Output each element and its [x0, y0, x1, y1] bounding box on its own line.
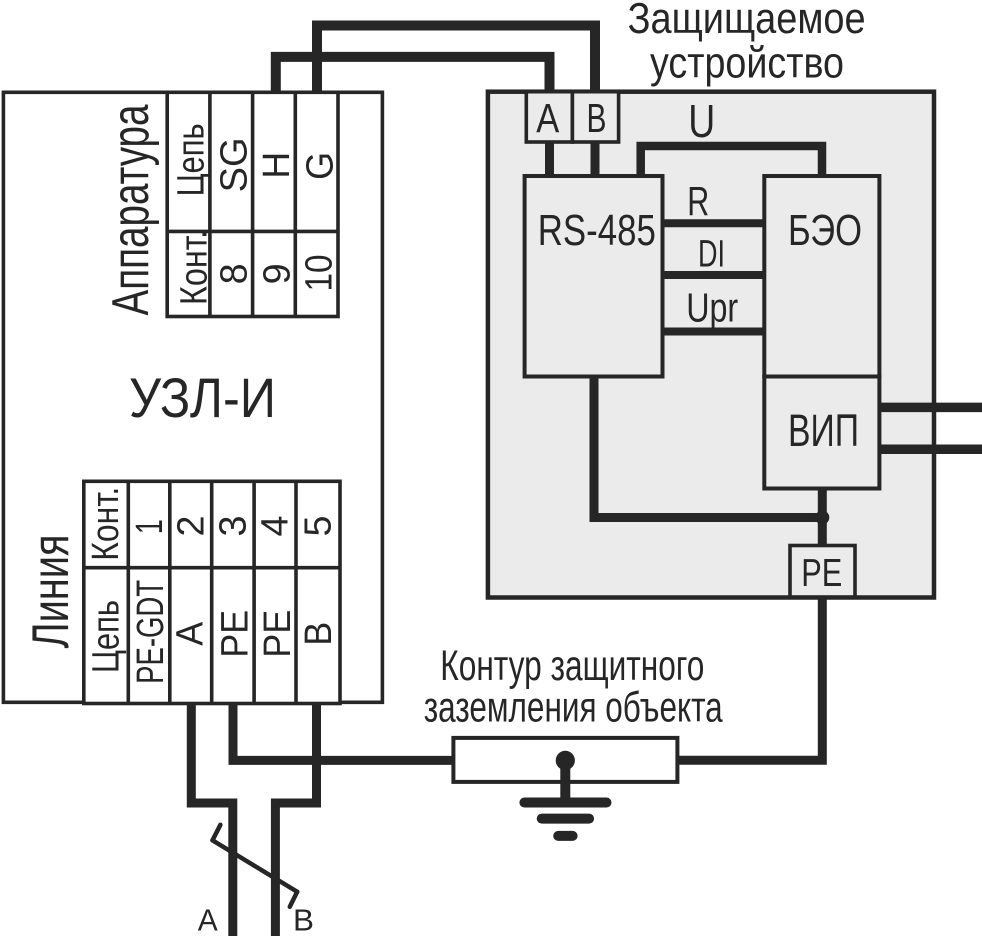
terminal A box: [526, 92, 572, 142]
terminal PE box: [790, 546, 855, 598]
svg-text:Upr: Upr: [686, 285, 738, 331]
svg-text:SG: SG: [213, 137, 255, 192]
svg-text:2: 2: [170, 516, 212, 537]
svg-text:G: G: [299, 152, 341, 180]
svg-text:PE: PE: [214, 610, 256, 658]
svg-text:4: 4: [255, 516, 297, 537]
wire B drop from pin 5: [275, 700, 316, 936]
svg-text:U: U: [688, 95, 715, 147]
ground bus bar (Контур защитного заземления): [453, 738, 677, 782]
wire ВИП power stub 2: [879, 445, 982, 455]
block БЭО: [764, 176, 879, 377]
svg-text:Линия: Линия: [22, 535, 80, 649]
wire net Upr: [662, 328, 765, 336]
svg-text:9: 9: [256, 263, 298, 284]
svg-text:1: 1: [129, 519, 171, 534]
svg-text:H: H: [256, 152, 298, 179]
wire H to A (net A): [276, 57, 550, 95]
svg-text:R: R: [687, 178, 709, 224]
svg-text:Защищаемое: Защищаемое: [628, 0, 866, 43]
svg-text:А: А: [198, 903, 218, 936]
wire net R: [662, 219, 765, 227]
wire A drop from pin 2: [191, 700, 233, 936]
block RS-485: [525, 176, 663, 377]
svg-text:Конт.: Конт.: [85, 487, 127, 561]
wire ВИП to PE terminal: [818, 488, 827, 546]
wire net DI: [662, 271, 765, 279]
protected device box (Защищаемое устройство): [488, 92, 934, 598]
wire stub A box to RS-485: [545, 140, 554, 178]
wire PE terminal to ground bus: [677, 595, 822, 760]
svg-text:В: В: [293, 903, 314, 936]
svg-text:8: 8: [214, 263, 256, 284]
ground symbol bar 3: [558, 831, 572, 841]
twisted pair slash symbol: [213, 825, 298, 907]
svg-text:DI: DI: [698, 234, 725, 276]
svg-text:устройство: устройство: [650, 38, 844, 87]
wire net U: [641, 146, 822, 178]
svg-text:3: 3: [212, 516, 254, 537]
svg-text:A: A: [170, 621, 212, 646]
svg-text:БЭО: БЭО: [788, 206, 862, 255]
svg-text:B: B: [298, 622, 340, 646]
junction node (dot) RS-485/ВИП ground: [815, 511, 829, 525]
wire G to B (net B): [317, 26, 595, 96]
ground symbol bar 1: [524, 798, 606, 808]
terminal table Линия (bottom): [84, 481, 340, 703]
ground symbol bar 2: [542, 814, 589, 824]
svg-text:PE-GDT: PE-GDT: [130, 580, 172, 684]
svg-text:5: 5: [298, 516, 340, 537]
ground node dot: [556, 751, 575, 770]
wire stub B box to RS-485: [591, 140, 600, 178]
ground stem: [560, 760, 570, 800]
terminal table Аппаратура (top): [167, 92, 338, 316]
svg-text:A: A: [536, 95, 560, 141]
svg-text:PE: PE: [257, 610, 299, 658]
svg-text:Конт.: Конт.: [174, 230, 216, 305]
block ВИП: [764, 377, 879, 489]
svg-text:RS-485: RS-485: [538, 206, 656, 255]
wire ВИП power stub 1: [879, 403, 982, 413]
terminal B box: [572, 92, 618, 142]
svg-text:УЗЛ-И: УЗЛ-И: [129, 366, 276, 429]
svg-text:ВИП: ВИП: [788, 405, 859, 456]
svg-text:10: 10: [299, 255, 341, 292]
svg-text:Цепь: Цепь: [86, 600, 128, 673]
svg-text:PE: PE: [801, 552, 842, 595]
wire PE drop from pin 3 to ground bus: [233, 700, 453, 760]
device УЗЛ-И box: [3, 92, 382, 702]
svg-text:заземления объекта: заземления объекта: [424, 684, 723, 732]
svg-text:B: B: [587, 95, 607, 141]
svg-text:Аппаратура: Аппаратура: [102, 104, 160, 315]
wire RS-485 ground to node: [594, 376, 822, 518]
svg-text:Цепь: Цепь: [170, 123, 212, 196]
